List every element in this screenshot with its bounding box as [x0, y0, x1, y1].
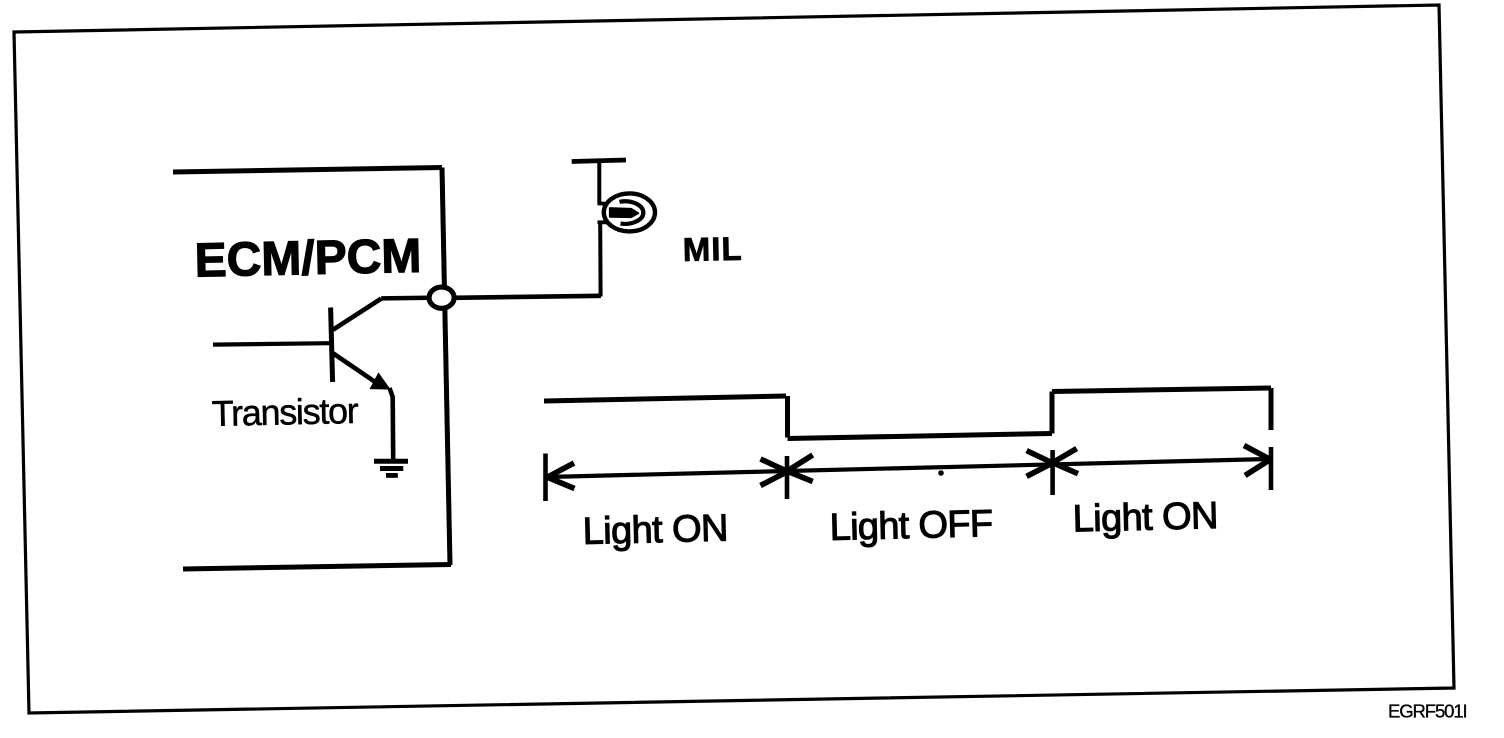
- lamp filament inner C: [620, 201, 644, 224]
- svg-text:Transistor: Transistor: [211, 390, 359, 434]
- ground symbol: [374, 461, 408, 475]
- transistor Q1 collector stroke: [333, 299, 381, 330]
- svg-text:MIL: MIL: [682, 230, 743, 268]
- waveform high segment 2: [1052, 388, 1271, 392]
- stray dot artifact: [938, 470, 944, 476]
- transistor Q1 base bar: [331, 308, 333, 383]
- waveform high segment 1: [544, 396, 786, 401]
- transistor Q1 base lead wire: [213, 343, 330, 344]
- waveform end falling edge: [1269, 388, 1274, 430]
- transistor Q1 emitter stroke: [333, 353, 374, 381]
- svg-text:Light OFF: Light OFF: [829, 503, 993, 549]
- wire emitter to ground: [390, 388, 394, 460]
- node junction (circle): [429, 287, 454, 308]
- lamp lower terminal nub: [598, 220, 607, 224]
- arrowhead middle 1 east side (points left): [788, 455, 813, 482]
- svg-text:Light ON: Light ON: [582, 508, 728, 554]
- arrowhead middle 2 west side (points right): [1027, 451, 1052, 477]
- arrowhead left end (points left): [548, 463, 575, 489]
- tick mark middle 1: [785, 456, 790, 499]
- arrowhead middle 1 west side (points right): [761, 459, 787, 486]
- tick mark middle 2: [1050, 450, 1055, 495]
- wire T-bar to lamp: [597, 161, 601, 203]
- wire ECM output vertical (through node): [442, 168, 450, 566]
- wire collector to node: [381, 296, 430, 301]
- svg-text:ECM/PCM: ECM/PCM: [194, 230, 422, 288]
- ECM/PCM box right side wire: [442, 168, 450, 566]
- waveform falling edge: [785, 396, 790, 438]
- waveform low segment: [788, 434, 1053, 439]
- power rail T-bar above lamp: [572, 160, 626, 162]
- tick mark left: [543, 454, 548, 502]
- transistor Q1 emitter arrowhead: [371, 374, 390, 390]
- arrowhead middle 2 east side (points left): [1054, 449, 1078, 474]
- dimension line (arrow line): [547, 459, 1270, 477]
- wire lamp to node wire: [598, 222, 602, 296]
- svg-text:Light ON: Light ON: [1072, 495, 1218, 541]
- wire node to lamp: [453, 296, 601, 298]
- ECM/PCM box top wire: [173, 168, 442, 173]
- lamp MIL outer bulb: [604, 193, 655, 231]
- tick mark right: [1269, 447, 1274, 490]
- lamp filament middle tongue: [610, 208, 638, 217]
- arrowhead right end (points right): [1244, 446, 1270, 476]
- ECM/PCM box bottom wire: [183, 565, 451, 570]
- lamp upper terminal nub: [598, 201, 607, 205]
- svg-text:EGRF501I: EGRF501I: [1388, 701, 1467, 722]
- waveform rising edge: [1050, 392, 1055, 434]
